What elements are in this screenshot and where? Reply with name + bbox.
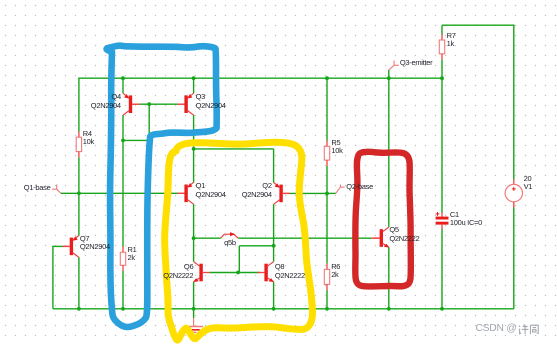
label V1 value+refdes: [524, 175, 533, 191]
wire Q2 base red stub: [283, 192, 290, 194]
wire q5b left segment: [194, 237, 221, 239]
label Q6 refdes+value: [163, 263, 193, 280]
wire Q1 emitter up: [193, 149, 195, 183]
capacitor C1: [436, 212, 449, 229]
resistor R5 body: [324, 141, 329, 166]
wire Q4 base to node: [139, 103, 178, 105]
voltage source V1: [505, 179, 522, 207]
wire Q1 collector down: [193, 204, 195, 262]
wire Q2-base node to R6: [326, 193, 328, 263]
wire R5 to Q2-base node: [326, 166, 328, 194]
node label Q2-base: [346, 183, 373, 191]
label Q8 refdes+value: [275, 263, 305, 280]
label Q3 refdes+value: [196, 93, 226, 110]
annotation red loop (Q5 output stage): [355, 152, 411, 287]
wire node A horizontal: [122, 139, 149, 141]
wire Q2 emitter drop: [273, 149, 275, 183]
wire Q7 base horizontal: [53, 245, 64, 247]
wire Q8 collector loop vertical: [238, 246, 240, 273]
transistor Q8 Q2N2222 (NPN): [257, 262, 274, 283]
transistor Q1 Q2N2904 (PNP): [177, 182, 193, 204]
wire V1 top segment: [513, 25, 515, 180]
wire diff-pair emitters horizontal: [194, 148, 274, 150]
wire Q5 collector up: [388, 78, 390, 227]
wire Q2-base flag stub: [327, 192, 336, 194]
annotation blue loop (current mirror Q4/Q3 branch): [107, 46, 217, 327]
wire Q5 emitter to ground rail: [388, 247, 390, 308]
wire Q4 emitter drop: [122, 78, 124, 93]
wire R5 branch upper: [326, 78, 328, 140]
transistor Q7 Q2N2904 (PNP): [63, 236, 79, 258]
wire Q4 base red stub: [132, 103, 139, 105]
transistor Q3 Q2N2904 (PNP): [177, 93, 193, 115]
wire main top rail (Q3-emitter net): [79, 77, 442, 79]
wire Q6-Q8 base horizontal: [210, 272, 260, 274]
label R6 refdes+value: [331, 263, 340, 279]
label R5 refdes+value: [331, 139, 342, 155]
wire Q1 base red stub: [178, 192, 184, 194]
node Q1-base flag: [52, 185, 61, 194]
wire Q7 base vertical drop: [51, 246, 54, 308]
wire Q8 emitter to ground rail: [273, 282, 275, 309]
wire Q6 emitter to ground rail: [193, 282, 195, 309]
label Q4 refdes+value: [91, 93, 121, 110]
node label Q1-base: [24, 184, 51, 192]
node Q3-emitter flag: [389, 61, 399, 70]
annotation yellow loop (diff pair + mirror): [165, 142, 313, 340]
wire C1 top segment: [441, 78, 443, 213]
wire Q7 base red stub: [63, 245, 70, 247]
wire R6 bottom to ground rail: [326, 290, 328, 309]
watermark CSDN @xutong: [476, 323, 517, 334]
resistor R4 body: [76, 131, 81, 157]
wire Q1-base horizontal: [61, 192, 179, 194]
resistor R6 body: [324, 264, 329, 291]
wire Q3-emitter flag stub: [388, 70, 390, 78]
resistor R1 body: [120, 247, 125, 272]
label Q7 refdes+value: [80, 235, 110, 252]
wire Q3 emitter up: [193, 78, 195, 93]
wire left rail upper (R4/Q1-base/Q7 emitter): [78, 78, 80, 236]
wire C1 bottom to ground rail: [441, 229, 443, 309]
wire bottom ground rail: [53, 308, 514, 310]
label current probe q5b: [224, 239, 236, 247]
label Q5 refdes+value: [389, 226, 419, 243]
transistor Q5 Q2N2222 (NPN): [373, 227, 390, 248]
wire Q3 base red stub: [178, 103, 184, 105]
wire V1 bottom to ground rail: [513, 207, 515, 308]
wire Q7 collector to ground rail: [78, 257, 80, 309]
label C1 refdes+value: [450, 211, 482, 227]
node Q2-base flag: [336, 185, 345, 194]
wire R7 bottom to main rail: [441, 60, 443, 79]
label R7 refdes+value: [447, 32, 456, 48]
wire junction dots: [77, 76, 444, 310]
wire q5b right segment to Q5 base: [238, 237, 372, 239]
wire Q5 base red stub: [372, 237, 380, 239]
wire R7 top segment: [441, 25, 443, 35]
wire Q2 collector down: [273, 204, 275, 262]
wire Q2 base to R5 node: [290, 192, 328, 194]
label R4 refdes+value: [83, 130, 94, 146]
wire node A vertical: [148, 104, 150, 140]
wire V+ top rail: [442, 24, 514, 26]
node label Q3-emitter: [400, 59, 432, 67]
resistor R7 body: [439, 34, 444, 59]
label Q2 refdes+value: [242, 182, 272, 199]
transistor Q4 Q2N2904 (PNP): [123, 93, 139, 115]
label Q1 refdes+value: [196, 182, 226, 199]
transistor Q6 Q2N2222 (NPN): [193, 262, 210, 283]
wire R1 bottom to ground rail: [122, 271, 124, 309]
wire Q4 collector / R1 branch: [122, 115, 124, 247]
label R1 refdes+value: [128, 246, 137, 262]
wire Q3 collector down: [193, 115, 195, 149]
current probe q5b: [221, 232, 239, 238]
ground (0) symbol: [185, 309, 203, 333]
wire Q8 collector loop horizontal: [239, 245, 273, 247]
transistor Q2 Q2N2904 (PNP): [274, 183, 290, 205]
